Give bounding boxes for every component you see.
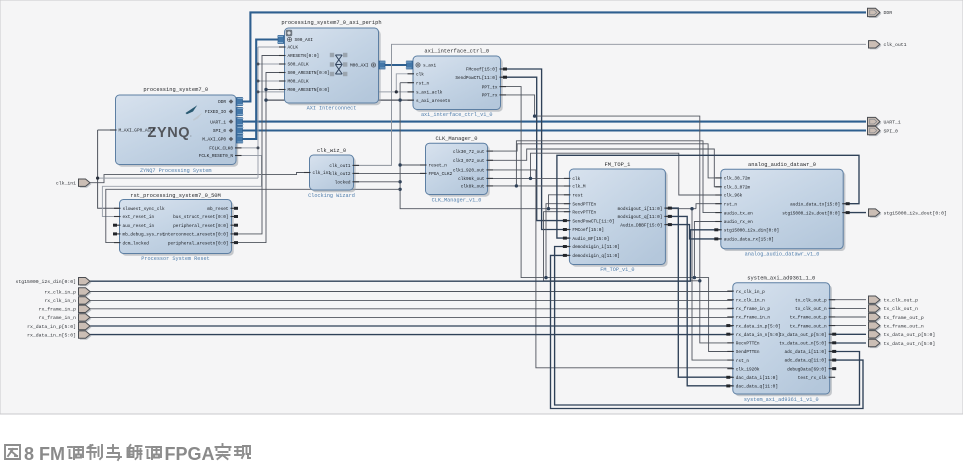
junction ppt j3 [698, 279, 701, 282]
wire net SendPowCTL bus [501, 77, 570, 220]
port SPI_0 port [868, 126, 899, 136]
port tx_data_out_p [869, 331, 936, 340]
svg-text:M_AXI_GP0: M_AXI_GP0 [202, 138, 226, 143]
pin analog clk_30_72m [715, 177, 750, 182]
port tx_clk_out_p [869, 296, 919, 305]
svg-text:tx_frame_out_p: tx_frame_out_p [884, 315, 924, 321]
svg-text:RecvPTTEn: RecvPTTEn [572, 210, 596, 215]
pin clk_out1 pin [329, 164, 359, 169]
svg-text:S00_AXI: S00_AXI [295, 38, 314, 43]
pin clk_out2 [329, 172, 359, 177]
svg-text:tx_data_out_p[5:0]: tx_data_out_p[5:0] [884, 332, 936, 338]
svg-text:M00_AXI: M00_AXI [350, 64, 369, 69]
wire net SPI_0 (interface) [236, 129, 866, 131]
junction clk j1 [529, 177, 532, 180]
svg-text:UART_1: UART_1 [884, 119, 901, 125]
svg-text:clk_out2: clk_out2 [329, 172, 350, 177]
svg-text:rx_frame_in_n: rx_frame_in_n [39, 315, 77, 321]
svg-text:tx_clk_out_p: tx_clk_out_p [884, 298, 919, 304]
pin analog rst_n [715, 202, 737, 207]
pin ad9361 dac_data_q[11:0] [726, 384, 778, 389]
svg-text:system_axi_ad9361_1_0: system_axi_ad9361_1_0 [747, 276, 815, 282]
wire net peripheral_aresetn up [232, 73, 285, 243]
wire net M00_AXI to s_axi (interface) [382, 64, 410, 66]
wire net PPT_rx [501, 95, 733, 343]
pin ad9361 rx_frame_in_n [727, 316, 770, 321]
wire net dcm_locked [106, 189, 400, 242]
pin clk30_72_out [453, 150, 493, 155]
wire net FCLK_CLK0 to ACLK [258, 46, 285, 48]
pin M_AXI_GP0_ACLK [110, 129, 156, 134]
pin ad9361 test_rx_clk [798, 376, 835, 381]
wire net clk1_920 [488, 170, 733, 368]
block analog_audio_datawr_0 [721, 162, 846, 258]
svg-text:axi_interface_ctrl_0: axi_interface_ctrl_0 [424, 49, 489, 55]
wire net clk8k branch [516, 141, 720, 213]
port rx_data_in_p [27, 322, 91, 331]
svg-text:rx_frame_in_p: rx_frame_in_p [736, 307, 771, 312]
wire net rx_frame_in_p [90, 308, 733, 310]
wire net tx_clk_out_n [830, 307, 866, 309]
svg-text:FM: FM [39, 444, 65, 464]
wire net aresetn vertical mid [400, 83, 696, 209]
svg-text:rx_clk_in_p: rx_clk_in_p [44, 289, 76, 295]
pin ad9361 SendPTTEn [727, 350, 760, 355]
svg-text:ARESETN[0:0]: ARESETN[0:0] [288, 54, 320, 59]
wire net tx_frame_out_p [830, 316, 866, 318]
svg-text:mb_debug_sys_rst: mb_debug_sys_rst [123, 233, 166, 238]
pin ad9361 tx_clk_out_p [795, 298, 835, 303]
wire net FCLK_CLK0 to M_AXI_GP0_ACLK [98, 129, 116, 131]
svg-text:demodsigin_q[11:0]: demodsigin_q[11:0] [572, 254, 619, 259]
pin analog audio_tx_en [715, 211, 753, 216]
svg-text:PPT_tx: PPT_tx [482, 85, 498, 90]
svg-text:clk: clk [572, 177, 580, 182]
pin PPT_tx [482, 85, 506, 90]
port clk_in1 [56, 179, 92, 188]
svg-text:clk3_072_out: clk3_072_out [453, 159, 485, 164]
pin FM_TOP Audio_BF[15:0] [563, 237, 609, 242]
junction clk j2 [515, 184, 518, 187]
svg-text:SendPowCTL[11:0]: SendPowCTL[11:0] [572, 219, 614, 224]
svg-text:adc_data_i[11:0]: adc_data_i[11:0] [785, 350, 827, 355]
pin ACLK [279, 46, 298, 51]
svg-text:UART_1: UART_1 [210, 120, 226, 125]
pin stg15000_i2s_dout pin [782, 211, 849, 216]
wire net clk_out1 to port [354, 44, 867, 165]
pin ad9361 debugData[69:0] [787, 367, 836, 372]
wire net FCLK_CLK0 to s_axi_aclk [258, 91, 413, 93]
svg-text:stg15000_i2s_dout[0:0]: stg15000_i2s_dout[0:0] [782, 211, 840, 216]
wire net PPT_tx to audio_rx_en [694, 222, 720, 278]
svg-text:FCLK_RESET0_N: FCLK_RESET0_N [199, 154, 234, 159]
svg-text:stg15000_i2s_din[0:0]: stg15000_i2s_din[0:0] [16, 279, 76, 285]
svg-text:clk: clk [416, 73, 424, 78]
wire net clk96k [488, 177, 570, 179]
junction aresetn j1 [264, 88, 267, 91]
pin ad9361 rst_n [727, 359, 749, 364]
pin FM_TOP rest [564, 194, 583, 199]
block processing_system7_0_axi_periph [281, 20, 381, 112]
port tx_data_out_n [869, 339, 936, 348]
svg-text:slowest_sync_clk: slowest_sync_clk [123, 207, 166, 212]
pin ad9361 clk_1920k [727, 367, 760, 372]
pin ad9361 rx_clk_in_n [727, 298, 765, 303]
port clk_out1 port [869, 41, 907, 50]
wire net clk_in1 to clk_wiz [90, 173, 310, 183]
svg-text:debugData[69:0]: debugData[69:0] [787, 367, 827, 372]
wire net aresetn to analog rst_n [696, 204, 721, 209]
pin clk96k_out [458, 177, 493, 182]
svg-text:analog_audio_datawr_0: analog_audio_datawr_0 [748, 162, 816, 168]
interface pin s_axi [406, 61, 437, 69]
svg-text:audio_tx_en: audio_tx_en [724, 211, 753, 216]
svg-text:stg15000_i2s_dout[0:0]: stg15000_i2s_dout[0:0] [884, 210, 947, 216]
junction aresetn j4 [398, 163, 401, 166]
svg-text:tx_clk_out_p: tx_clk_out_p [795, 298, 827, 303]
wire net aresetn to CLK_Manager reset_n [400, 164, 425, 166]
pin PPT_rx [482, 94, 506, 99]
interface pin FIXED_IO [205, 108, 244, 116]
svg-text:rx_data_in_n[5:0]: rx_data_in_n[5:0] [736, 333, 781, 338]
junction FCLK j4 [257, 146, 260, 149]
wire net stg15000_i2s_din bus [90, 230, 721, 281]
svg-text:demodsigin_i[11:0]: demodsigin_i[11:0] [572, 245, 619, 250]
wire net FCLK_RESET0_N [102, 156, 261, 217]
port stg15000_i2s_din [16, 278, 92, 287]
wire net clk8k [488, 185, 570, 187]
junction FCLK j2 [257, 80, 260, 83]
svg-text:clk_out1: clk_out1 [884, 42, 907, 48]
svg-text:rst_n: rst_n [416, 81, 430, 86]
svg-text:tx_frame_out_n: tx_frame_out_n [884, 323, 924, 329]
junction aresetn j3 [398, 98, 401, 101]
wire net peripheral_aresetn to s_axi_aresetn [266, 99, 413, 101]
junction aresetn j2 [264, 98, 267, 101]
svg-text:clk_3_072m: clk_3_072m [724, 186, 751, 191]
svg-text:audio_data_tx[15:0]: audio_data_tx[15:0] [790, 202, 840, 207]
pin rst_n [408, 81, 430, 86]
svg-text:FPGA_CLK2: FPGA_CLK2 [429, 172, 453, 177]
junction FCLK j3 [257, 90, 260, 93]
interface pin M00_AXI [350, 61, 386, 69]
pin analog clk_96k [715, 194, 742, 199]
port tx_clk_out_n [869, 305, 919, 314]
svg-text:axi_interface_ctrl_v1_0: axi_interface_ctrl_v1_0 [421, 112, 493, 118]
svg-text:mb_reset: mb_reset [207, 207, 228, 212]
junction aresetn j6 [398, 188, 401, 191]
svg-text:clk_1920k: clk_1920k [736, 367, 760, 372]
svg-text:ACLK: ACLK [288, 46, 299, 51]
svg-text:clk_30_72m: clk_30_72m [724, 177, 751, 182]
pin FCLK_CLK0 [209, 147, 241, 152]
pin analog clk_3_072m [715, 186, 750, 191]
svg-text:Clocking Wizard: Clocking Wizard [308, 193, 355, 199]
pin FPGA_CLK2 [420, 172, 453, 177]
pin SendPowCTL [455, 76, 507, 81]
pin ad9361 tx_frame_out_p [790, 316, 835, 321]
interface pin DDR [218, 98, 243, 106]
svg-text:ZYNQ7 Processing System: ZYNQ7 Processing System [140, 168, 212, 174]
wire net peripheral_aresetn to M00_ARESETN [266, 89, 285, 91]
svg-text:clk30_72_out: clk30_72_out [453, 150, 485, 155]
caption 图8 FM调制与解调FPGA实现 [5, 445, 20, 459]
wire net clk30_72 [488, 144, 721, 178]
pin rst dcm_locked [114, 241, 149, 246]
wire net tx_data_out_n bus [830, 342, 866, 344]
port stg15000_i2s_dout port [869, 209, 947, 218]
svg-text:FM_TOP_v1_0: FM_TOP_v1_0 [600, 267, 634, 273]
wire net FCLK_CLK0 to left [98, 177, 258, 179]
pin clk_in1 pin [304, 171, 331, 176]
svg-text:FCLK_CLK0: FCLK_CLK0 [209, 147, 233, 152]
svg-text:SPI_0: SPI_0 [213, 129, 227, 134]
svg-text:audio_rx_en: audio_rx_en [724, 220, 753, 225]
pin rst slowest_sync_clk [114, 207, 165, 212]
svg-text:S00_ACLK: S00_ACLK [288, 63, 309, 68]
svg-text:tx_data_out_n[5:0]: tx_data_out_n[5:0] [884, 341, 936, 347]
svg-text:adc_data_q[11:0]: adc_data_q[11:0] [785, 359, 827, 364]
junction aresetn j8 [690, 207, 693, 210]
pin ad9361 adc_data_q[11:0] [785, 359, 837, 364]
svg-text:rx_clk_in_p: rx_clk_in_p [736, 290, 765, 295]
pin ad9361 rx_clk_in_p [727, 290, 765, 295]
port rx_clk_in_n [44, 297, 91, 306]
port rx_data_in_n [27, 331, 91, 340]
svg-text:tx_frame_out_p: tx_frame_out_p [790, 316, 827, 321]
pin FM_TOP clk [564, 177, 581, 182]
wire net rx_clk_in_p [90, 291, 733, 293]
svg-text:tx_data_out_p[5:0]: tx_data_out_p[5:0] [779, 333, 826, 338]
svg-text:audio_data_rx[15:0]: audio_data_rx[15:0] [724, 238, 774, 243]
svg-text:DDR: DDR [218, 100, 226, 105]
svg-text:s_axi: s_axi [423, 64, 437, 69]
wire net M_AXI_GP0 to S00_AXI (interface) [236, 40, 281, 140]
svg-text:AXI Interconnect: AXI Interconnect [307, 106, 357, 112]
interface pin UART_1 [210, 118, 243, 126]
svg-text:CLK_Manager_0: CLK_Manager_0 [435, 136, 477, 142]
svg-text:M00_ARESETN[0:0]: M00_ARESETN[0:0] [288, 88, 330, 93]
svg-text:SendPTTEn: SendPTTEn [736, 350, 760, 355]
interface pin SPI_0 [213, 127, 244, 135]
pin FM_TOP FMCoef[15:0] [563, 228, 604, 233]
pin s_axi_aclk [408, 91, 443, 96]
svg-text:stg15000_i2s_din[0:0]: stg15000_i2s_din[0:0] [724, 229, 779, 234]
wire net adc_data_i bus loop [555, 247, 860, 406]
svg-text:clk96k_out: clk96k_out [458, 177, 485, 182]
wire net aresetn to ad9361 rst_n [692, 209, 733, 360]
interface pin M_AXI_GP0 [202, 135, 243, 143]
pin FM_TOP demodsigin_i[11:0] [563, 245, 620, 250]
svg-text:analog_audio_datawr_v1_0: analog_audio_datawr_v1_0 [745, 252, 820, 258]
wire net FCLK_CLK0 vertical [257, 47, 259, 178]
pin rst aux_reset_in [113, 224, 154, 229]
svg-text:rx_data_in_p[5:0]: rx_data_in_p[5:0] [27, 324, 76, 330]
svg-text:rst_n: rst_n [736, 359, 750, 364]
wire net audio_data_tx bus loop [557, 155, 859, 238]
pin rst mb_debug_sys_rst [113, 232, 165, 237]
port DDR port [868, 8, 893, 18]
junction FCLK j1 [257, 63, 260, 66]
wire net stg15000_i2s_dout [843, 212, 866, 214]
pin rst peripheral_aresetn[0:0] [168, 241, 238, 246]
block system_axi_ad9361_1_0 [733, 276, 832, 404]
port rx_frame_in_n [39, 314, 92, 323]
pin modsigout_i [618, 207, 672, 212]
pin S00_ACLK [279, 63, 309, 68]
wire net UART_1 (interface) [236, 121, 866, 123]
svg-text:locked: locked [335, 181, 351, 186]
wire net FMcoef bus [501, 69, 570, 230]
svg-text:FMCoef[15:0]: FMCoef[15:0] [572, 228, 604, 233]
svg-text:rx_clk_in_n: rx_clk_in_n [44, 298, 76, 304]
wire net PPT_rx branch [544, 212, 700, 281]
wire net rx_clk_in_n [90, 299, 733, 301]
svg-text:rx_data_in_p[5:0]: rx_data_in_p[5:0] [736, 324, 781, 329]
pin rst peripheral_reset[0:0] [173, 224, 238, 229]
port UART_1 port [868, 117, 901, 127]
svg-text:modsigout_i[11:0]: modsigout_i[11:0] [618, 207, 663, 212]
svg-text:FIXED_IO: FIXED_IO [205, 110, 226, 115]
wire net FCLK_CLK0 to M00_ACLK [258, 80, 285, 82]
pin ad9361 rx_data_in_n[5:0] [726, 333, 780, 338]
svg-text:Audio_DBBF[15:0]: Audio_DBBF[15:0] [620, 223, 662, 228]
pin locked [335, 181, 359, 186]
junction ppt j4 [533, 114, 536, 117]
wire net clk96k branch [531, 153, 721, 195]
pin audio_data_tx [790, 202, 850, 207]
pin ad9361 adc_data_i[11:0] [785, 350, 837, 355]
wire net PPT_tx to FM SendPTTEn [546, 204, 569, 278]
svg-text:rx_frame_in_p: rx_frame_in_p [39, 307, 77, 313]
svg-text:clk_out1: clk_out1 [329, 164, 350, 169]
svg-text:clk_in1: clk_in1 [56, 181, 76, 187]
pin ad9361 tx_data_out_p[5:0] [779, 333, 836, 338]
svg-text:modsigout_q[11:0]: modsigout_q[11:0] [618, 215, 663, 220]
port rx_frame_in_p [39, 305, 92, 314]
wire net modsigout_q bus [665, 216, 732, 385]
svg-text:s_axi_aresetn: s_axi_aresetn [416, 99, 451, 104]
svg-text:dcm_locked: dcm_locked [123, 241, 150, 246]
wire net FCLK_CLK0 down-left [98, 130, 120, 208]
svg-text:dac_data_i[11:0]: dac_data_i[11:0] [736, 376, 778, 381]
svg-text:CLK_Manager_v1_0: CLK_Manager_v1_0 [432, 198, 482, 204]
pin M00_ARESETN [279, 88, 330, 93]
wire net tx_clk_out_p [830, 299, 866, 301]
svg-text:FPGA: FPGA [165, 444, 215, 464]
pin Audio_DBBF [620, 223, 672, 228]
pin FM_TOP demodsigin_q[11:0] [563, 254, 620, 259]
svg-text:processing_system7_0_axi_perip: processing_system7_0_axi_periph [281, 20, 381, 26]
svg-text:tx_frame_out_n: tx_frame_out_n [790, 324, 827, 329]
svg-text:SendPowCTL[11:0]: SendPowCTL[11:0] [455, 76, 497, 81]
pin modsigout_q [618, 215, 672, 220]
svg-text:clk8k_out: clk8k_out [461, 185, 485, 190]
pin FM_TOP clk_M [564, 185, 586, 190]
junction FCLK j6 [395, 90, 398, 93]
svg-text:rst_n: rst_n [724, 202, 738, 207]
svg-text:clk1_920_out: clk1_920_out [453, 169, 485, 174]
junction ppt j1 [544, 276, 547, 279]
wire net rx_data_in_p bus [90, 325, 733, 327]
junction FCLK j5 [96, 177, 99, 180]
svg-text:peripheral_aresetn[0:0]: peripheral_aresetn[0:0] [168, 241, 229, 246]
pin rst ext_reset_in [114, 215, 154, 220]
svg-text:ext_reset_in: ext_reset_in [123, 215, 155, 220]
pin FMcoef [466, 68, 507, 73]
wire net interconnect_aresetn [232, 56, 285, 234]
svg-text:reset_n: reset_n [429, 164, 448, 169]
wire net DDR (interface) [236, 12, 866, 101]
svg-text:8: 8 [24, 444, 34, 464]
block FM_TOP_1 [569, 162, 667, 273]
svg-text:tx_clk_out_n: tx_clk_out_n [884, 306, 919, 312]
pin ARESETN [279, 54, 319, 59]
pin FM_TOP SendPTTEn [564, 202, 597, 207]
ZYNQ logo [148, 105, 203, 141]
pin rst bus_struct_reset[0:0] [173, 215, 238, 220]
pin analog audio_data_rx[15:0] [714, 237, 774, 242]
pin clk8k_out [461, 185, 493, 190]
svg-text:rst_processing_system7_0_50M: rst_processing_system7_0_50M [130, 193, 221, 199]
svg-text:bus_struct_reset[0:0]: bus_struct_reset[0:0] [173, 215, 228, 220]
wire net tx_data_out_p bus [830, 333, 866, 335]
svg-text:Audio_BF[15:0]: Audio_BF[15:0] [572, 237, 609, 242]
svg-text:S00_ARESETN[0:0]: S00_ARESETN[0:0] [288, 71, 330, 76]
svg-text:RecvPTTEn: RecvPTTEn [736, 342, 760, 347]
junction aresetn j5 [398, 180, 401, 183]
pin FM_TOP RecvPTTEn [564, 210, 597, 215]
svg-text:test_rx_clk: test_rx_clk [798, 376, 827, 381]
wire net FCLK_CLK0 main riser [236, 147, 258, 149]
wire net aresetn to rst_n axi_ctrl [400, 82, 413, 84]
svg-text:Processor System Reset: Processor System Reset [141, 256, 210, 262]
pin M00_ACLK [279, 80, 309, 85]
port tx_frame_out_p [869, 313, 924, 322]
pin ad9361 rx_data_in_p[5:0] [726, 324, 780, 329]
svg-text:M_AXI_GP0_ACLK: M_AXI_GP0_ACLK [119, 129, 156, 134]
svg-text:system_axi_ad9361_1_v1_0: system_axi_ad9361_1_v1_0 [744, 397, 819, 403]
block axi_interface_ctrl_0 [413, 49, 503, 119]
svg-text:FMcoef[15:0]: FMcoef[15:0] [466, 68, 498, 73]
svg-text:clk_M: clk_M [572, 185, 586, 190]
junction ppt j2 [693, 276, 696, 279]
svg-text:tx_data_out_n[5:0]: tx_data_out_n[5:0] [779, 342, 826, 347]
junction aresetn j7 [547, 207, 550, 210]
svg-text:aux_reset_in: aux_reset_in [123, 224, 155, 229]
wire net rx_frame_in_n [90, 316, 733, 318]
svg-text:rx_data_in_n[5:0]: rx_data_in_n[5:0] [27, 332, 76, 338]
block CLK_Manager_0 [426, 136, 490, 204]
wire net FCLK_CLK0 to S00_ACLK [258, 63, 285, 65]
pin reset_n [420, 164, 447, 169]
pin rst interconnect_aresetn[0:0] [163, 232, 238, 237]
svg-text:clk_96k: clk_96k [724, 194, 743, 199]
svg-text:dac_data_q[11:0]: dac_data_q[11:0] [736, 385, 778, 390]
pin rst mb_reset [207, 207, 238, 212]
wire net PPT_tx [501, 87, 733, 352]
svg-text:rx_clk_in_n: rx_clk_in_n [736, 298, 765, 303]
svg-text:tx_clk_out_n: tx_clk_out_n [795, 307, 827, 312]
svg-text:s_axi_aclk: s_axi_aclk [416, 91, 443, 96]
wire net modsigout_i bus [665, 208, 732, 377]
wire net clk_out2 to FPGA_CLK2 [354, 172, 426, 174]
block clk_wiz_0 [308, 148, 356, 199]
wire net Audio_DBBF bus [665, 225, 720, 239]
pin ad9361 rx_frame_in_p [727, 307, 770, 312]
wire net tx_frame_out_n [830, 325, 866, 327]
wire net rx_data_in_n bus [90, 334, 733, 336]
